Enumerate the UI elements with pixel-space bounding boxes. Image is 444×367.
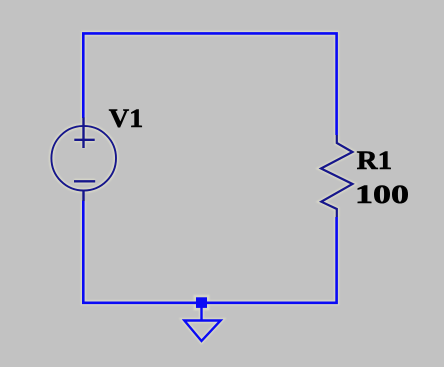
svg-text:R1: R1 <box>357 146 393 175</box>
ground <box>184 308 220 342</box>
plus crossbar <box>74 139 94 141</box>
voltage source V1 <box>51 118 116 202</box>
junction node (net 0) <box>196 297 207 308</box>
wire: top run (V1 top to R1 top) <box>83 33 336 135</box>
resistor R1 (zigzag body with pin stubs) <box>321 135 353 217</box>
pin 2 (bottom) <box>82 190 84 201</box>
wire: bottom run (V1 bottom via ground node to R1 bottom) <box>83 201 336 303</box>
minus bar <box>74 180 95 182</box>
wire halo ringing <box>51 33 352 341</box>
pin 1 (top) with plus stem <box>82 118 84 149</box>
source circle <box>51 126 116 191</box>
svg-text:V1: V1 <box>109 104 144 133</box>
svg-text:100: 100 <box>355 180 409 209</box>
